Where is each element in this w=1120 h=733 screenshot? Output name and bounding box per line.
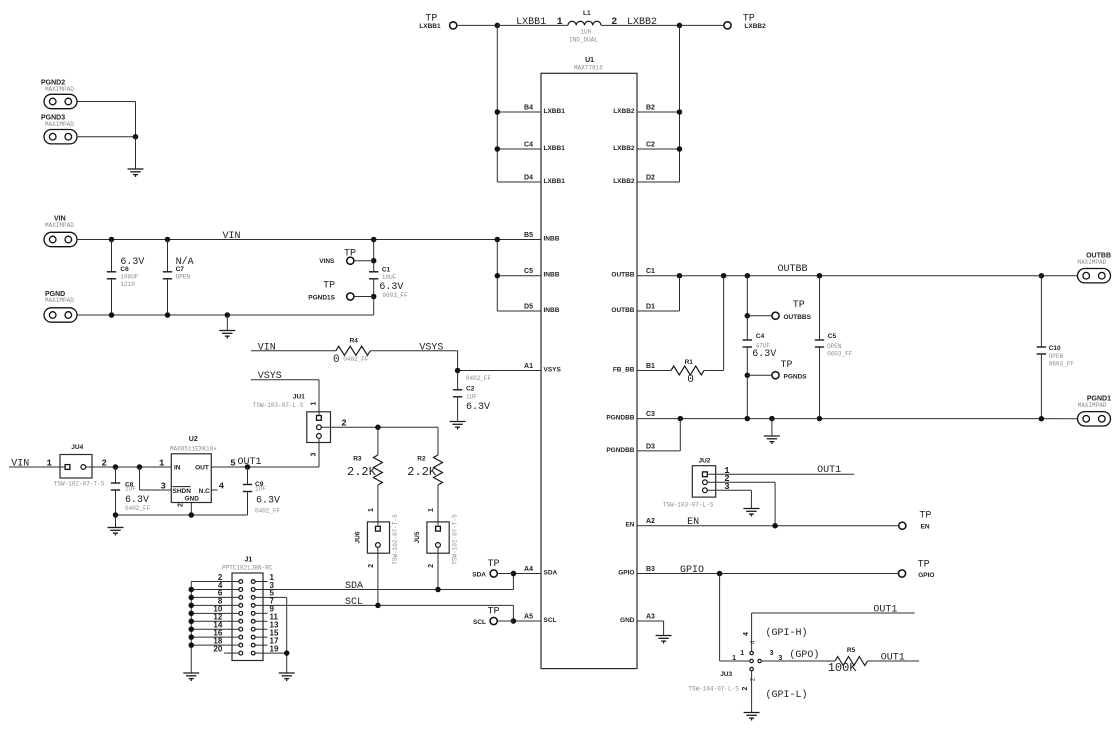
svg-text:VIN: VIN: [258, 342, 276, 353]
wire JU1 pin2 east: [321, 426, 438, 428]
wire INBB vertical bus: [496, 240, 498, 312]
wire C9 bottom: [247, 492, 249, 516]
svg-text:2: 2: [368, 564, 375, 568]
test point TP PGNDS: [772, 372, 779, 379]
wire to U1 pin B4: [497, 111, 541, 113]
svg-text:1: 1: [428, 508, 435, 512]
junction J1 bus pin 10: [189, 611, 195, 617]
junction OUTBB/R1: [721, 273, 727, 279]
pad PGND MAXIMPAD: [44, 308, 77, 322]
JU3 pin 3: [758, 659, 761, 662]
svg-text:N.C: N.C: [199, 488, 211, 495]
svg-text:1UF: 1UF: [125, 486, 136, 493]
wire C2 bottom: [457, 397, 459, 422]
jumper JU2 body: [692, 466, 715, 497]
junction J1 bus pin 18: [189, 642, 195, 648]
junction J1 pin19/ground drop: [284, 650, 290, 656]
svg-text:B1: B1: [646, 363, 655, 370]
svg-text:3: 3: [310, 452, 317, 456]
wire R1 to corner: [704, 370, 724, 372]
wire J1 pin 6: [191, 596, 239, 598]
wire JU2 pin3 down: [750, 490, 752, 508]
svg-text:LXBB2: LXBB2: [613, 178, 635, 185]
wire J1 pin 20 stub: [224, 652, 239, 654]
svg-text:TP: TP: [344, 249, 356, 260]
svg-text:1: 1: [740, 650, 744, 657]
JU3 pin 4: [750, 651, 753, 654]
svg-text:0: 0: [333, 354, 340, 366]
svg-text:LXBB1: LXBB1: [544, 145, 566, 152]
junction VSYS/C2: [455, 368, 461, 374]
svg-text:B4: B4: [524, 105, 533, 112]
svg-text:TP: TP: [781, 360, 793, 371]
wire SDA to U1 pin A4: [513, 573, 541, 575]
svg-text:J1: J1: [245, 557, 253, 564]
junction OUTBB/D1: [677, 273, 683, 279]
svg-text:OUT1: OUT1: [817, 465, 841, 476]
svg-text:C3: C3: [646, 411, 655, 418]
wire C9 top: [247, 467, 249, 485]
J1 pin 17 circle: [251, 643, 255, 647]
junction SHDN node: [137, 464, 143, 470]
wire C7 bottom: [167, 279, 169, 315]
resistor R1: [671, 366, 704, 375]
ground below JU2 pin3: [743, 509, 759, 517]
test point TP EN: [899, 522, 906, 529]
svg-text:(GPI-H): (GPI-H): [766, 627, 808, 639]
junction PGND/C6: [109, 312, 115, 318]
svg-text:OPEN: OPEN: [827, 343, 842, 350]
junction J1 bus pin 4: [189, 587, 195, 593]
J1 pin 5 circle: [251, 596, 255, 600]
junction VIN/C1: [371, 237, 377, 243]
svg-text:A2: A2: [646, 518, 655, 525]
junction PGND/C7: [165, 312, 171, 318]
svg-text:FB_BB: FB_BB: [613, 367, 635, 374]
svg-text:MAX77816: MAX77816: [574, 65, 603, 72]
svg-text:OUT: OUT: [195, 465, 209, 472]
wire SCL net: [255, 604, 513, 606]
capacitor C8: [111, 483, 120, 490]
J1 pin 1 circle: [251, 580, 255, 584]
junction VIN/INBB bus: [495, 237, 501, 243]
wire SHDN drop: [139, 467, 141, 490]
wire JU4 pin2 to U2 IN: [86, 466, 172, 468]
junction SCL/TP: [511, 618, 517, 624]
svg-text:TSW-102-07-T-S: TSW-102-07-T-S: [452, 514, 459, 565]
junction J1 bus pin 12: [189, 619, 195, 625]
JU6 pin 1: [376, 526, 381, 531]
svg-text:2.2K: 2.2K: [407, 465, 437, 479]
test point TP GPIO: [898, 570, 905, 577]
ground below J1 pin19: [279, 673, 295, 681]
J1 pin 9 circle: [251, 611, 255, 615]
op-amp U1 MAX77816 body: [541, 73, 637, 668]
wire node LXBB1 to L1 pin1: [497, 24, 568, 26]
svg-text:MAX8511EXK18+: MAX8511EXK18+: [170, 446, 217, 453]
wire C10 top segment: [1040, 276, 1042, 347]
wire GPIO net: [637, 573, 898, 575]
wire to U1 pin C4: [497, 148, 541, 150]
junction EN/JU2: [772, 523, 778, 529]
wire LXBB2 vertical bus: [679, 25, 681, 182]
wire C5 bottom segment: [819, 347, 821, 419]
svg-text:TP: TP: [488, 559, 500, 570]
svg-text:JU3: JU3: [720, 671, 732, 678]
J1 pin 11 circle: [251, 619, 255, 623]
wire PGND ground stem: [226, 315, 228, 331]
J1 pin 16 circle: [239, 635, 243, 639]
wire J1 pin19 stub: [255, 652, 287, 654]
wire U1 pin D1: [637, 310, 680, 312]
svg-text:D5: D5: [524, 304, 533, 311]
wire R2 to JU5: [437, 485, 439, 526]
junction JU1/R3: [375, 425, 381, 431]
test point TP OUTBBS: [772, 312, 779, 319]
inductor L1: [568, 21, 601, 25]
svg-text:0402_FF: 0402_FF: [466, 375, 492, 382]
svg-text:(GPI-L): (GPI-L): [766, 689, 808, 701]
wire PGND2 corner down: [135, 102, 137, 137]
wire J1 pin5 ground drop: [286, 597, 288, 673]
ground below JU3 pin2: [744, 713, 760, 721]
wire JU2 pin3 east: [707, 489, 751, 491]
svg-text:OPEN: OPEN: [1049, 353, 1064, 360]
svg-text:GND: GND: [185, 495, 200, 502]
junction PGNDBB/C10: [1039, 416, 1045, 422]
wire U1 pin A3 GND: [637, 620, 664, 622]
wire SHDN to U2 pin3: [140, 489, 172, 491]
svg-text:0402_FF: 0402_FF: [255, 508, 281, 515]
svg-text:OUT1: OUT1: [881, 652, 905, 663]
svg-text:MAXIMPAD: MAXIMPAD: [45, 121, 74, 128]
wire SCL to U1 pin A5: [513, 620, 541, 622]
svg-text:VIN: VIN: [11, 459, 29, 470]
wire R3 to JU6: [377, 485, 379, 526]
svg-text:D3: D3: [646, 443, 655, 450]
junction OUTBBS tap: [745, 313, 751, 319]
svg-text:SDA: SDA: [345, 581, 363, 592]
ground on PGND rail: [219, 331, 235, 339]
svg-text:C4: C4: [756, 333, 765, 340]
wire C6 top: [111, 240, 113, 272]
wire J1 pin 4: [191, 588, 239, 590]
J1 pin 14 circle: [239, 627, 243, 631]
svg-text:MAXIMPAD: MAXIMPAD: [45, 222, 74, 229]
wire J1 ground bus vertical: [190, 582, 192, 674]
svg-text:U1: U1: [585, 57, 594, 64]
capacitor C1: [369, 272, 378, 279]
wire to U1 pin C5: [497, 275, 541, 277]
junction PGNDBB/ground: [769, 416, 775, 422]
J1 pin 20 circle: [239, 651, 243, 655]
svg-text:5: 5: [230, 458, 235, 468]
wire D3 corner up: [679, 419, 681, 451]
svg-text:MAXIMPAD: MAXIMPAD: [45, 86, 74, 93]
svg-text:1: 1: [159, 458, 165, 468]
svg-text:SDA: SDA: [472, 571, 486, 578]
wire PGND rail: [77, 314, 374, 316]
svg-text:EN: EN: [687, 517, 699, 528]
ground below PGND3: [128, 169, 144, 177]
wire D1 corner up: [679, 276, 681, 311]
svg-text:4: 4: [743, 632, 750, 636]
svg-text:SCL: SCL: [345, 597, 363, 608]
svg-text:1: 1: [732, 655, 736, 662]
junction PGNDBB/C4: [745, 416, 751, 422]
svg-text:PGNDBB: PGNDBB: [606, 447, 634, 454]
wire J1 pin 1 stub: [255, 581, 267, 583]
junction U2 GND/rail: [189, 512, 195, 518]
junction VINS tap: [371, 258, 377, 264]
wire TP PGNDS: [747, 374, 772, 376]
svg-text:VSYS: VSYS: [419, 342, 443, 353]
svg-text:L1: L1: [583, 10, 591, 17]
wire U1 pin D3: [637, 450, 680, 452]
svg-text:IND_DUAL: IND_DUAL: [569, 36, 598, 43]
test point TP SDA: [490, 570, 497, 577]
wire J1 pin5 stub: [255, 596, 287, 598]
wire VSYS corner down: [457, 351, 459, 371]
connector J1 body: [232, 573, 263, 661]
wire C6 bottom: [111, 279, 113, 315]
svg-text:0402_FF: 0402_FF: [125, 505, 151, 512]
svg-text:(GPO): (GPO): [789, 649, 819, 661]
wire TP OUTBBS: [747, 315, 772, 317]
JU5 pin 1: [436, 526, 441, 531]
svg-text:SHDN: SHDN: [173, 488, 192, 495]
svg-text:GPIO: GPIO: [918, 572, 934, 579]
svg-text:C7: C7: [176, 266, 185, 273]
wire TP SDA: [497, 573, 513, 575]
junction J1 bus pin 14: [189, 626, 195, 632]
svg-text:1UF: 1UF: [255, 486, 266, 493]
svg-text:LXBB1: LXBB1: [544, 108, 566, 115]
svg-text:R4: R4: [350, 338, 359, 345]
jumper JU5 body: [427, 522, 449, 553]
svg-text:VINS: VINS: [319, 258, 335, 265]
capacitor C7: [163, 272, 172, 279]
wire U1 pin C2: [637, 148, 680, 150]
junction LXBB2/C2: [677, 146, 683, 152]
wire TP PGND1S: [354, 296, 374, 298]
J1 pin 13 circle: [251, 627, 255, 631]
wire J1 pin 12: [191, 620, 239, 622]
wire VIN rail: [77, 239, 541, 241]
svg-text:2.2K: 2.2K: [347, 465, 377, 479]
pad PGND1 MAXIMPAD: [1078, 412, 1111, 426]
svg-text:LXBB1: LXBB1: [516, 17, 546, 28]
wire R3 top: [377, 427, 379, 455]
test point TP PGND1S: [347, 293, 354, 300]
wire C1 bottom segment: [373, 279, 375, 315]
svg-text:OUT1: OUT1: [873, 605, 897, 616]
junction OUTBB/C4: [745, 273, 751, 279]
wire GPIO drop to JU3: [719, 574, 721, 662]
junction LXBB1/B4: [495, 109, 501, 115]
JU4 pin 1: [65, 465, 70, 470]
wire JU5 pin2 to SDA: [437, 547, 439, 589]
svg-text:OUTBBS: OUTBBS: [784, 314, 812, 321]
svg-text:JU4: JU4: [71, 444, 83, 451]
svg-text:TP: TP: [919, 511, 931, 522]
wire LXBB1 vertical bus: [496, 25, 498, 182]
svg-text:A4: A4: [524, 566, 533, 573]
wire J1 pin 8: [191, 604, 239, 606]
wire J1 pin 10: [191, 612, 239, 614]
wire U2 N.C stub: [211, 489, 217, 491]
junction VIN/C6: [109, 237, 115, 243]
wire to U1 pin D5: [497, 310, 541, 312]
svg-text:GND: GND: [620, 617, 635, 624]
svg-text:0: 0: [687, 374, 694, 386]
jumper JU1 body: [307, 412, 331, 443]
svg-text:PGND1S: PGND1S: [308, 294, 335, 301]
wire VSYS to JU1 pin1: [318, 380, 320, 416]
svg-text:PGNDBB: PGNDBB: [606, 415, 634, 422]
wire JU6 pin2 to SCL: [377, 547, 379, 605]
wire U1 pin D2: [637, 181, 680, 183]
svg-text:2: 2: [611, 17, 617, 28]
J1 pin 12 circle: [239, 619, 243, 623]
svg-text:VSYS: VSYS: [544, 367, 562, 374]
JU6 pin 2: [376, 543, 381, 548]
wire J1 pin 13 stub: [255, 628, 267, 630]
junction GPIO/JU3: [717, 571, 723, 577]
svg-text:2: 2: [178, 503, 185, 507]
JU3 pin 1: [750, 659, 753, 662]
J1 pin 18 circle: [239, 643, 243, 647]
svg-text:OUTBB: OUTBB: [611, 307, 634, 314]
svg-text:19: 19: [270, 644, 279, 653]
svg-text:LXBB2: LXBB2: [744, 23, 766, 30]
svg-text:C4: C4: [524, 142, 533, 149]
pad OUTBB MAXIMPAD: [1078, 269, 1111, 283]
J1 pin 15 circle: [251, 635, 255, 639]
wire L1 pin2 to node LXBB2: [601, 24, 680, 26]
svg-text:MAXIMPAD: MAXIMPAD: [1078, 402, 1107, 409]
svg-text:TSW-104-07-L-S: TSW-104-07-L-S: [688, 686, 739, 693]
wire C8 top: [115, 467, 117, 483]
wire J1 pin 16: [191, 636, 239, 638]
test point TP SCL: [490, 617, 497, 624]
wire PGND3 pad east: [77, 136, 136, 138]
svg-text:C2: C2: [466, 386, 475, 393]
wire VIN stub to JU4: [9, 466, 65, 468]
svg-text:JU2: JU2: [699, 458, 711, 465]
J1 pin 7 circle: [251, 603, 255, 607]
wire to U1 pin D4: [497, 181, 541, 183]
svg-text:A1: A1: [524, 363, 533, 370]
resistor R3: [373, 455, 382, 485]
test point TP LXBB1: [450, 22, 457, 29]
svg-text:U2: U2: [189, 436, 198, 443]
svg-text:R3: R3: [353, 456, 362, 463]
svg-text:2: 2: [341, 418, 346, 428]
svg-text:C6: C6: [120, 266, 129, 273]
junction PGND2/PGND3: [133, 134, 139, 140]
svg-text:PGNDS: PGNDS: [784, 374, 808, 381]
resistor R5: [835, 657, 868, 666]
wire PGNDBB rail: [637, 418, 1078, 420]
wire node LXBB2 to TP LXBB2: [680, 24, 724, 26]
wire C4 top segment: [746, 276, 748, 340]
wire VIN to R4: [251, 350, 336, 352]
wire R4 to corner: [370, 350, 457, 352]
svg-text:C2: C2: [646, 142, 655, 149]
svg-text:1210: 1210: [120, 281, 135, 288]
J1 pin 10 circle: [239, 611, 243, 615]
capacitor C5: [815, 340, 824, 347]
capacitor C10: [1037, 347, 1046, 354]
svg-text:2: 2: [742, 686, 749, 690]
svg-text:JU1: JU1: [293, 394, 305, 401]
wire PGND junction to ground: [135, 137, 137, 169]
junction SDA/TP: [511, 571, 517, 577]
junction OUTBB/C10: [1039, 273, 1045, 279]
wire C4 bottom segment: [746, 347, 748, 419]
svg-text:GPIO: GPIO: [618, 570, 634, 577]
svg-text:MAXIMPAD: MAXIMPAD: [45, 297, 74, 304]
svg-text:10UF: 10UF: [382, 274, 397, 281]
junction node LXBB2 top: [677, 23, 683, 29]
wire U2 ground rail: [116, 514, 248, 516]
svg-text:1: 1: [557, 17, 563, 28]
junction VIN/C7: [165, 237, 171, 243]
JU1 pin 1: [317, 416, 322, 421]
svg-text:1: 1: [368, 508, 375, 512]
svg-text:1UF: 1UF: [466, 394, 477, 401]
svg-text:JU5: JU5: [414, 531, 421, 543]
svg-text:LXBB2: LXBB2: [613, 108, 635, 115]
regulator U2 body: [171, 454, 211, 503]
svg-text:LXBB2: LXBB2: [627, 17, 657, 28]
wire JU3 pin3 to R5: [761, 660, 835, 662]
wire C5 top segment: [819, 276, 821, 340]
svg-text:R2: R2: [417, 456, 426, 463]
svg-text:A3: A3: [646, 614, 655, 621]
svg-text:TP: TP: [488, 607, 500, 618]
svg-text:0603_FF: 0603_FF: [1049, 361, 1075, 368]
svg-text:4: 4: [219, 482, 225, 492]
test point TP VINS: [347, 257, 354, 264]
svg-text:JU6: JU6: [355, 531, 362, 543]
svg-text:TSW-103-07-L-S: TSW-103-07-L-S: [253, 402, 304, 409]
svg-text:D2: D2: [646, 175, 655, 182]
svg-text:A5: A5: [524, 614, 533, 621]
capacitor C6: [107, 272, 116, 279]
jumper JU4 body: [60, 455, 92, 479]
svg-text:D4: D4: [524, 175, 533, 182]
svg-text:TSW-102-07-T-S: TSW-102-07-T-S: [54, 481, 105, 488]
wire C1 top segment: [373, 240, 375, 272]
wire C7 top: [167, 240, 169, 272]
svg-text:EN: EN: [921, 523, 930, 530]
ground on PGNDBB rail: [764, 436, 780, 444]
wire C8 bottom: [115, 490, 117, 515]
wire JU3 pin2 ground drop: [751, 671, 753, 713]
wire TP VINS: [354, 260, 374, 262]
wire PGND2 pad east: [77, 101, 136, 103]
pad PGND3 MAXIMPAD: [44, 130, 77, 144]
junction OUTBB/C5: [817, 273, 823, 279]
J1 pin 19 circle: [251, 651, 255, 655]
svg-text:3: 3: [724, 482, 729, 492]
svg-text:LXBB2: LXBB2: [613, 145, 635, 152]
wire J1 pin 15 stub: [255, 636, 267, 638]
junction PGND/ground: [225, 312, 231, 318]
svg-text:0603_FF: 0603_FF: [827, 350, 853, 357]
